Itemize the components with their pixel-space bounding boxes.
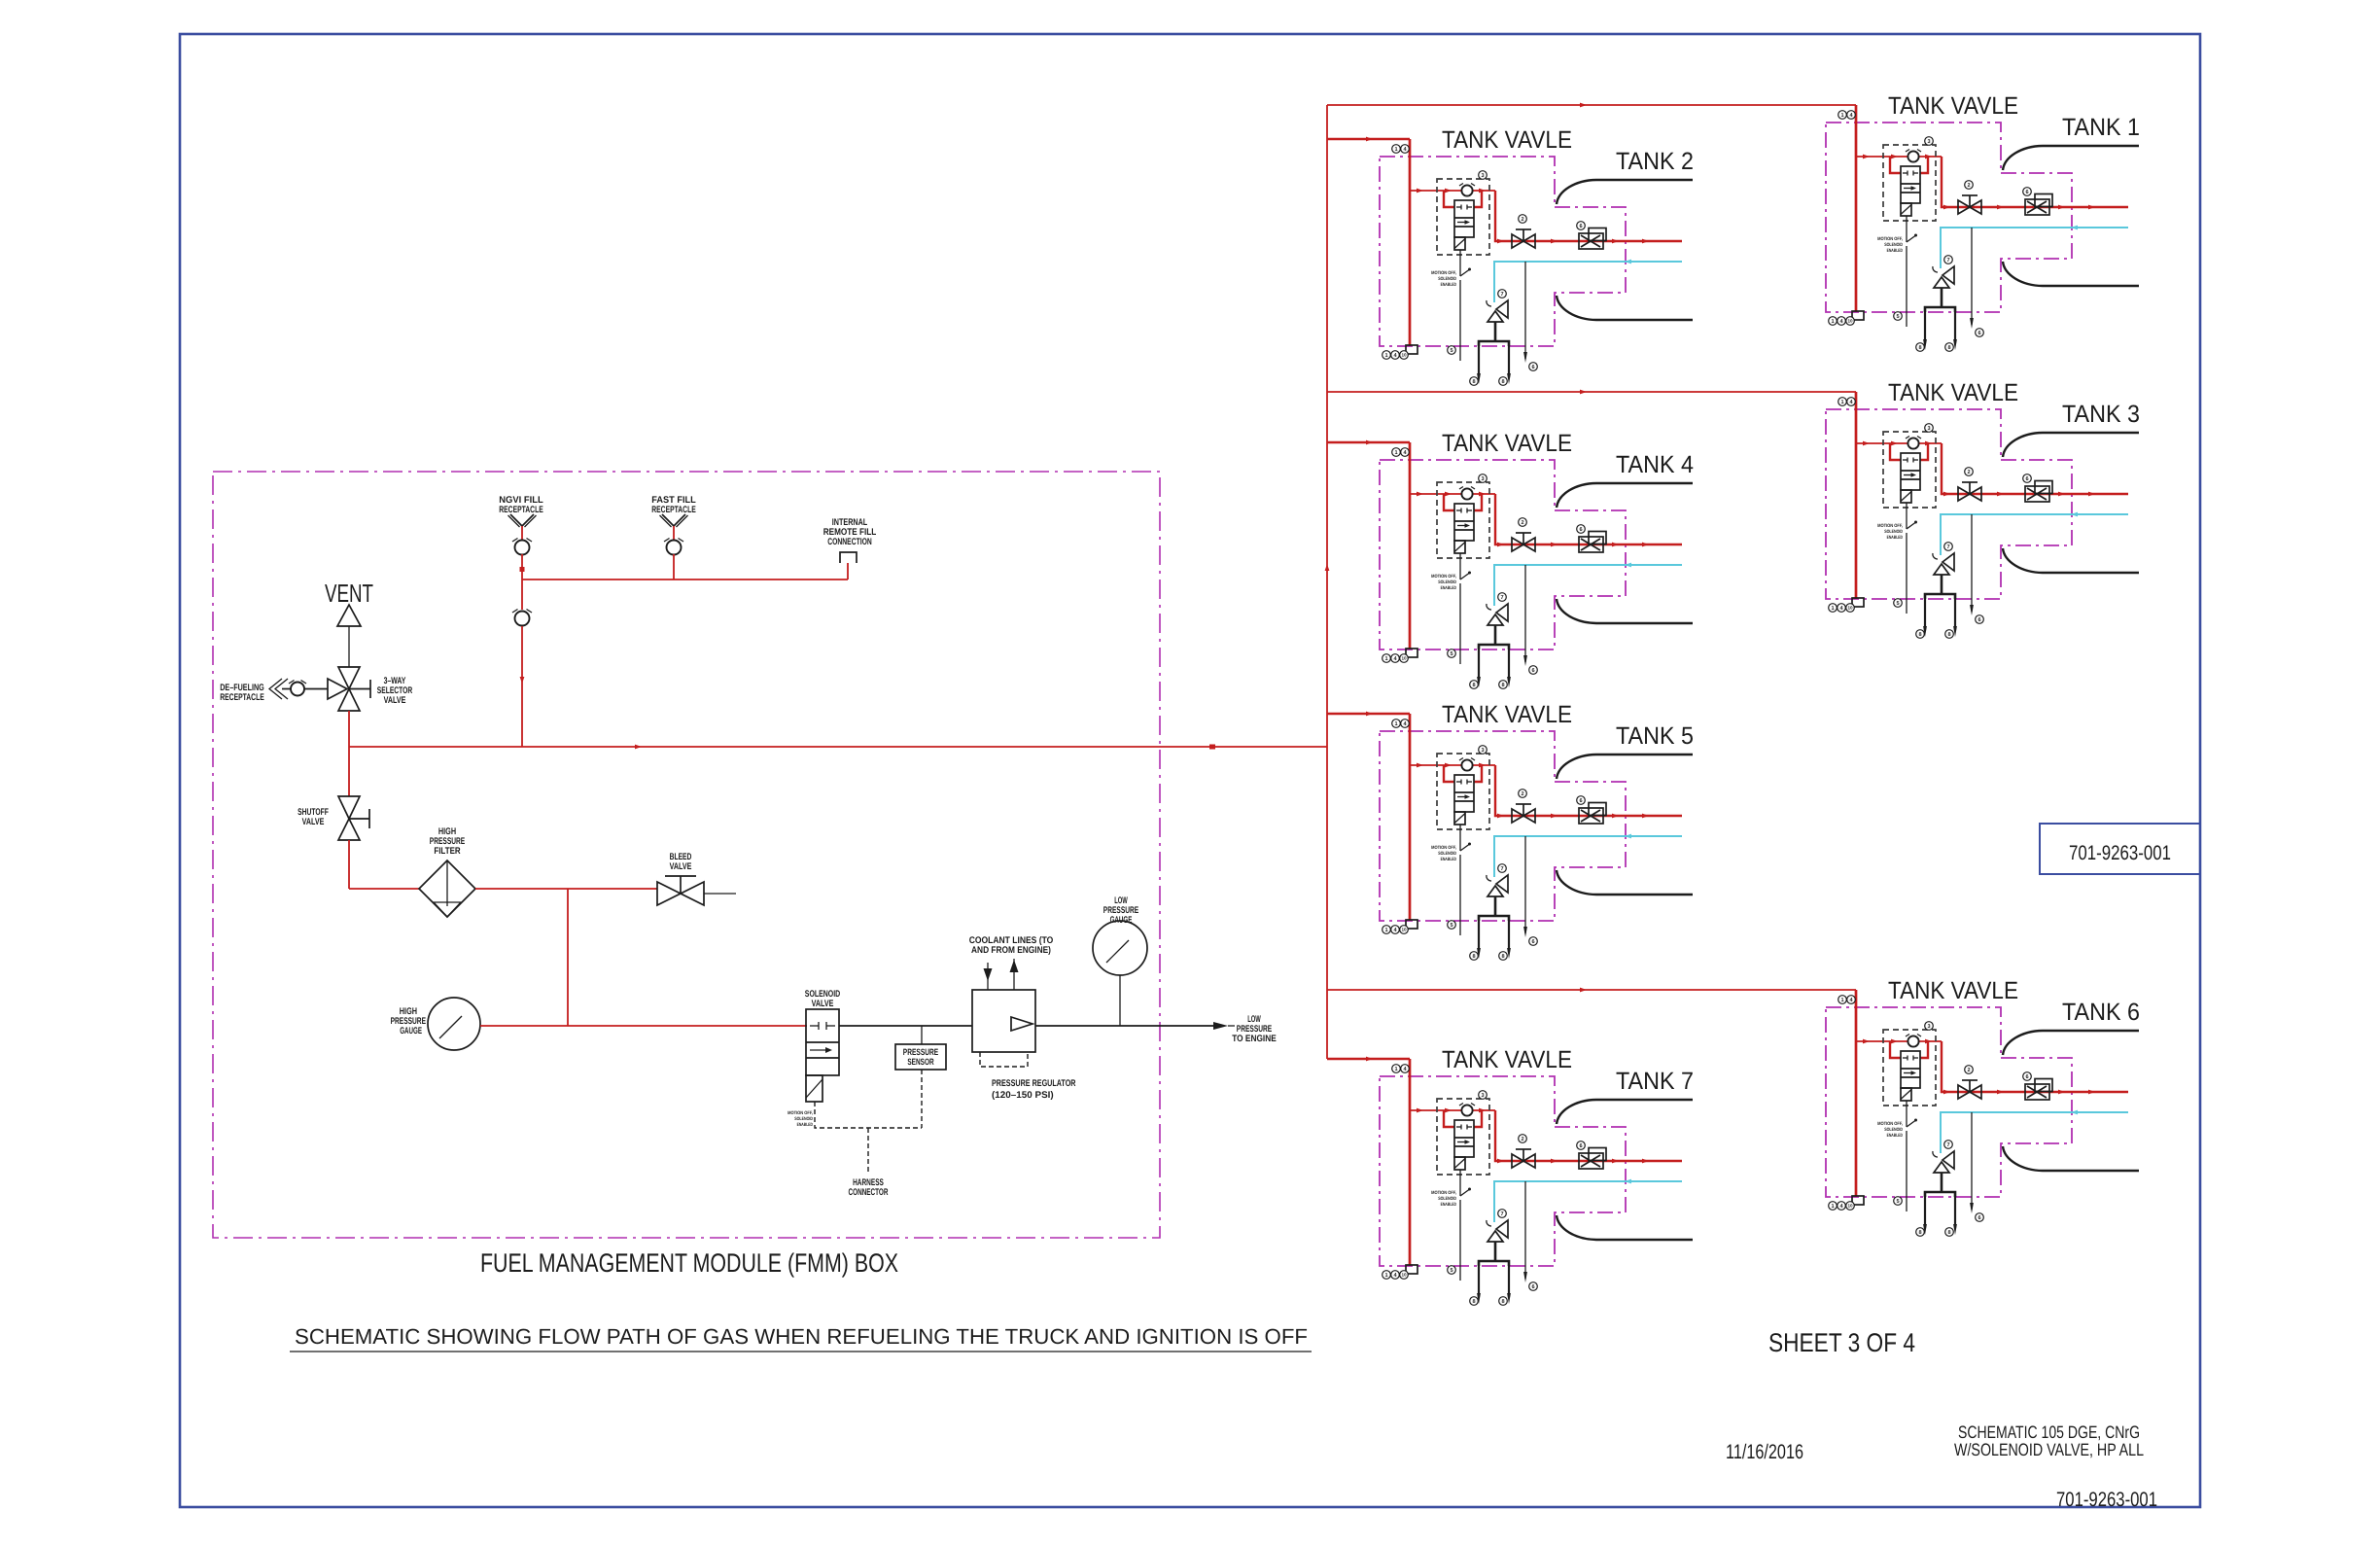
svg-text:TO ENGINE: TO ENGINE bbox=[1232, 1034, 1277, 1044]
svg-text:SOLENOID: SOLENOID bbox=[794, 1116, 813, 1122]
svg-text:CONNECTOR: CONNECTOR bbox=[849, 1187, 889, 1198]
svg-text:(120–150 PSI): (120–150 PSI) bbox=[992, 1090, 1054, 1101]
svg-text:TANK 4: TANK 4 bbox=[1616, 451, 1694, 478]
svg-text:701-9263-001: 701-9263-001 bbox=[2056, 1489, 2157, 1511]
svg-text:GAUGE: GAUGE bbox=[400, 1026, 422, 1036]
svg-text:11/16/2016: 11/16/2016 bbox=[1726, 1441, 1803, 1463]
svg-text:RECEPTACLE: RECEPTACLE bbox=[499, 505, 543, 515]
svg-text:TANK 5: TANK 5 bbox=[1616, 722, 1694, 750]
svg-text:ENABLED: ENABLED bbox=[797, 1122, 814, 1128]
svg-text:SCHEMATIC 105 DGE, CNrG: SCHEMATIC 105 DGE, CNrG bbox=[1958, 1422, 2140, 1442]
svg-text:TANK 1: TANK 1 bbox=[2062, 114, 2140, 141]
svg-text:TANK 2: TANK 2 bbox=[1616, 148, 1694, 175]
svg-text:FILTER: FILTER bbox=[434, 846, 460, 857]
svg-text:CONNECTION: CONNECTION bbox=[827, 537, 872, 547]
svg-text:SCHEMATIC SHOWING FLOW PATH: SCHEMATIC SHOWING FLOW PATH OF GAS WHEN … bbox=[295, 1324, 1308, 1349]
svg-text:PRESSURE REGULATOR: PRESSURE REGULATOR bbox=[992, 1078, 1076, 1089]
svg-text:FUEL MANAGEMENT MODULE (FMM: FUEL MANAGEMENT MODULE (FMM) BOX bbox=[480, 1248, 898, 1278]
svg-text:SHEET 3 OF 4: SHEET 3 OF 4 bbox=[1768, 1328, 1915, 1357]
svg-text:VALVE: VALVE bbox=[384, 695, 406, 706]
svg-text:PRESSURE: PRESSURE bbox=[903, 1047, 938, 1057]
svg-text:RECEPTACLE: RECEPTACLE bbox=[220, 692, 264, 703]
svg-text:VALVE: VALVE bbox=[812, 999, 834, 1009]
svg-text:TANK 7: TANK 7 bbox=[1616, 1068, 1694, 1095]
svg-text:SENSOR: SENSOR bbox=[907, 1057, 934, 1067]
svg-text:TANK 6: TANK 6 bbox=[2062, 999, 2140, 1026]
svg-text:W/SOLENOID VALVE, HP ALL: W/SOLENOID VALVE, HP ALL bbox=[1954, 1440, 2144, 1459]
svg-text:RECEPTACLE: RECEPTACLE bbox=[651, 505, 696, 515]
svg-text:VALVE: VALVE bbox=[670, 861, 692, 872]
svg-text:MOTION OFF,: MOTION OFF, bbox=[787, 1110, 813, 1116]
svg-text:VALVE: VALVE bbox=[302, 817, 325, 827]
svg-text:701-9263-001: 701-9263-001 bbox=[2069, 842, 2171, 864]
svg-text:AND FROM ENGINE): AND FROM ENGINE) bbox=[971, 945, 1051, 956]
svg-text:TANK 3: TANK 3 bbox=[2062, 401, 2140, 428]
svg-text:GAUGE: GAUGE bbox=[1110, 915, 1133, 926]
